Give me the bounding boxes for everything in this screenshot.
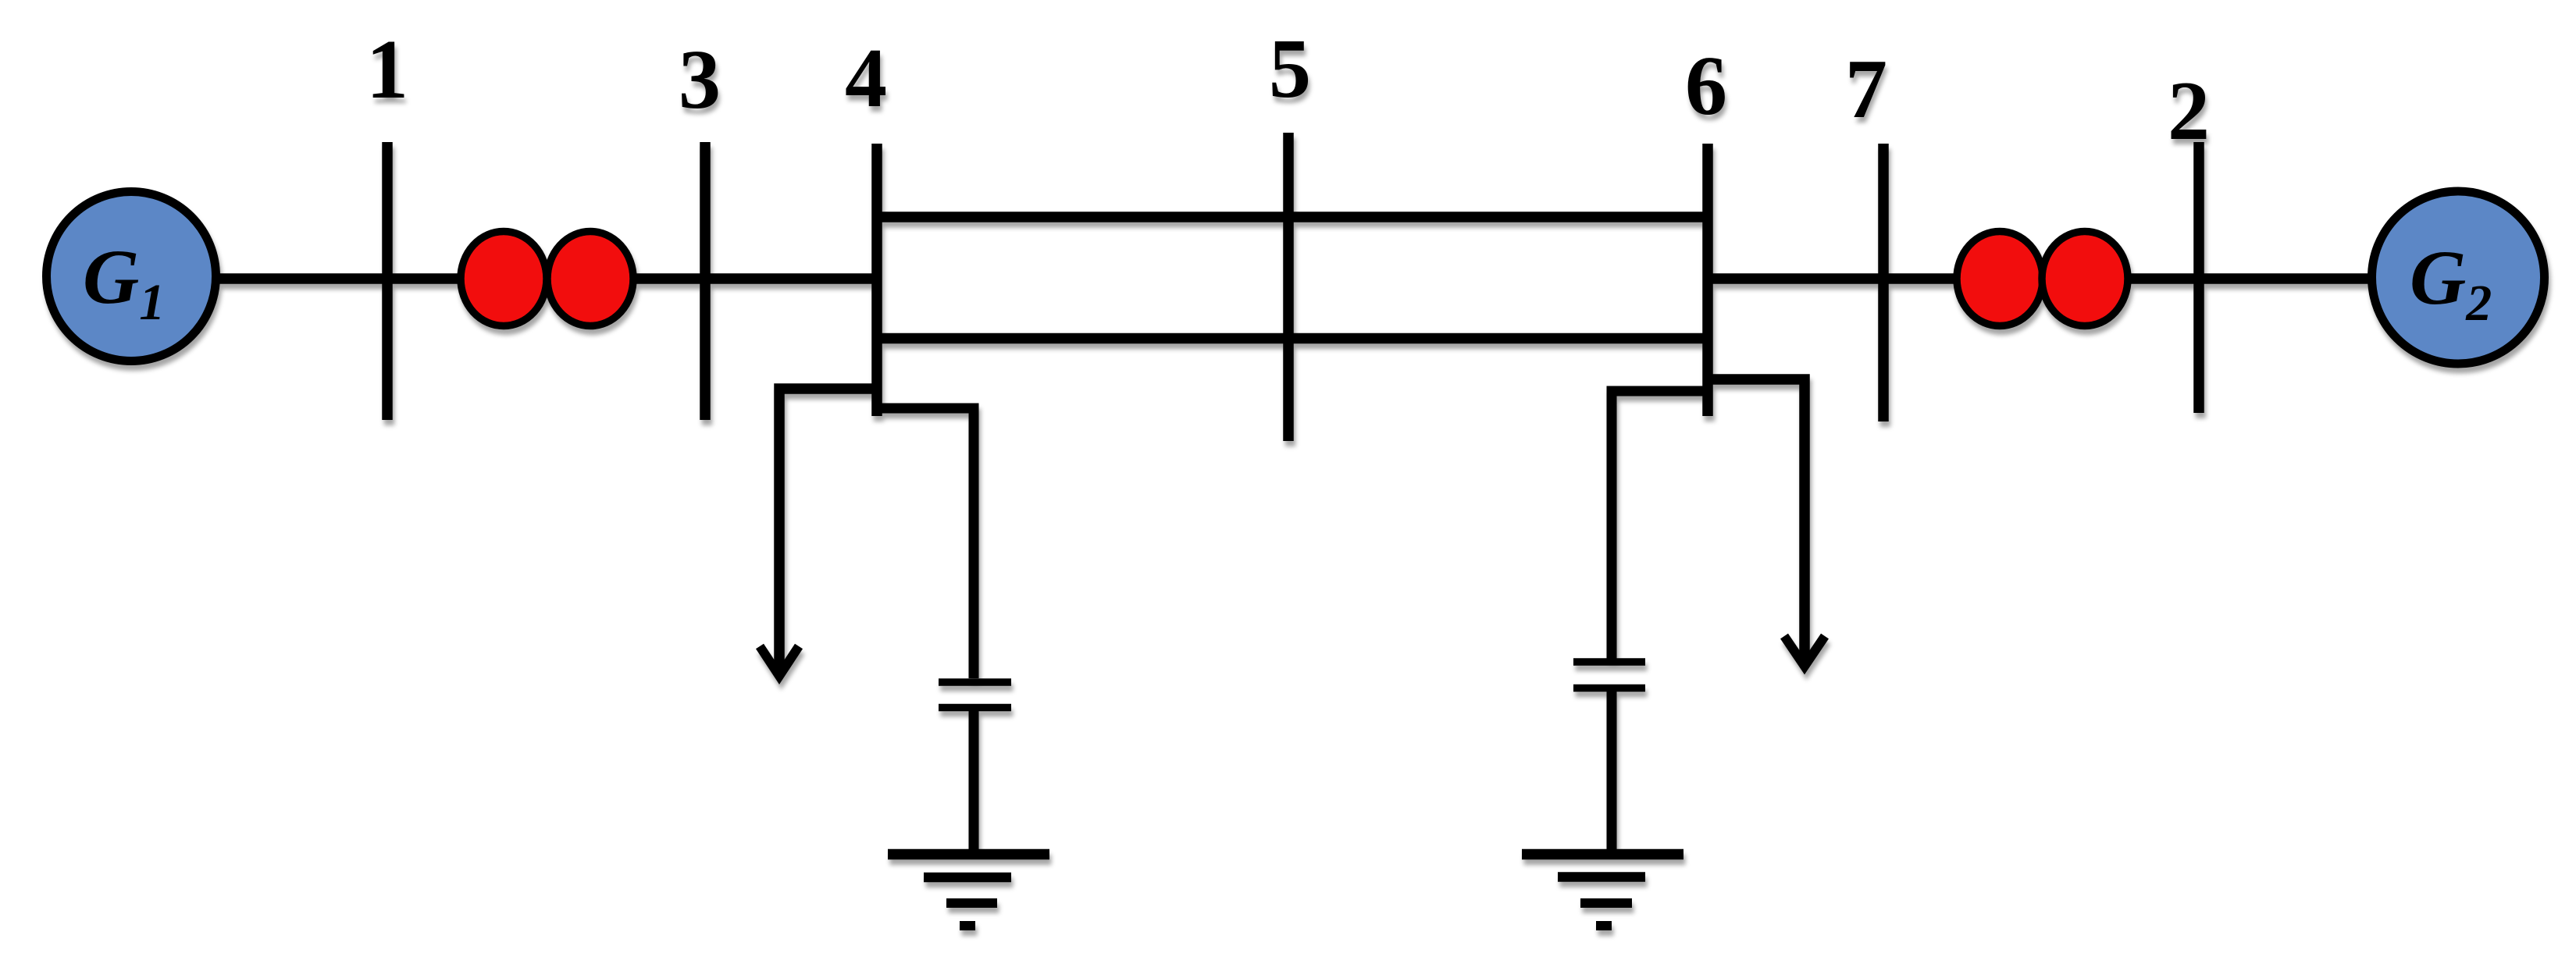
- capacitor C6 bottom plate: [1573, 685, 1645, 692]
- svg-text:6: 6: [1685, 40, 1727, 133]
- bus 3: [700, 142, 711, 420]
- capacitor C6 top plate: [1573, 658, 1645, 666]
- transformer T2 circle A: [1957, 232, 2043, 326]
- bus 2: [2193, 142, 2204, 413]
- generator G2: [2372, 191, 2545, 364]
- transformer T1 circle A: [461, 232, 547, 326]
- wire G1 to bus 4 (main axis left): [216, 273, 877, 284]
- bus 4: [871, 144, 882, 416]
- svg-text:2: 2: [2168, 65, 2210, 158]
- wire capacitor C4 to ground: [969, 711, 979, 855]
- wire capacitor branch at bus 4: [877, 408, 974, 678]
- wire capacitor branch at bus 6: [1612, 391, 1708, 659]
- svg-text:1: 1: [366, 23, 408, 116]
- wire load branch at bus 6: [1708, 379, 1805, 665]
- svg-text:3: 3: [679, 34, 721, 126]
- ground at bus 4: [888, 855, 1049, 931]
- ground at bus 6: [1522, 855, 1683, 931]
- bus 5: [1283, 133, 1294, 441]
- wire transmission line 4-5-6 upper: [877, 212, 1708, 222]
- bus 6: [1702, 144, 1713, 416]
- capacitor C4 bottom plate: [939, 704, 1011, 712]
- svg-text:7: 7: [1845, 43, 1887, 136]
- wire bus 6 to G2 (main axis right): [1708, 273, 2372, 284]
- generator G1: [47, 192, 216, 361]
- svg-text:5: 5: [1269, 23, 1311, 116]
- wire transmission line 4-5-6 lower: [877, 333, 1708, 344]
- svg-text:4: 4: [845, 32, 887, 125]
- load arrow at bus 6: [1784, 636, 1825, 667]
- bus 7: [1878, 144, 1889, 421]
- transformer T1 circle B: [547, 232, 633, 326]
- capacitor C4 top plate: [939, 678, 1011, 686]
- bus 1: [382, 142, 393, 420]
- transformer T2 circle B: [2042, 232, 2128, 326]
- wire load branch at bus 4: [779, 389, 877, 674]
- wire capacitor C6 to ground: [1607, 692, 1617, 855]
- load arrow at bus 4: [760, 646, 799, 676]
